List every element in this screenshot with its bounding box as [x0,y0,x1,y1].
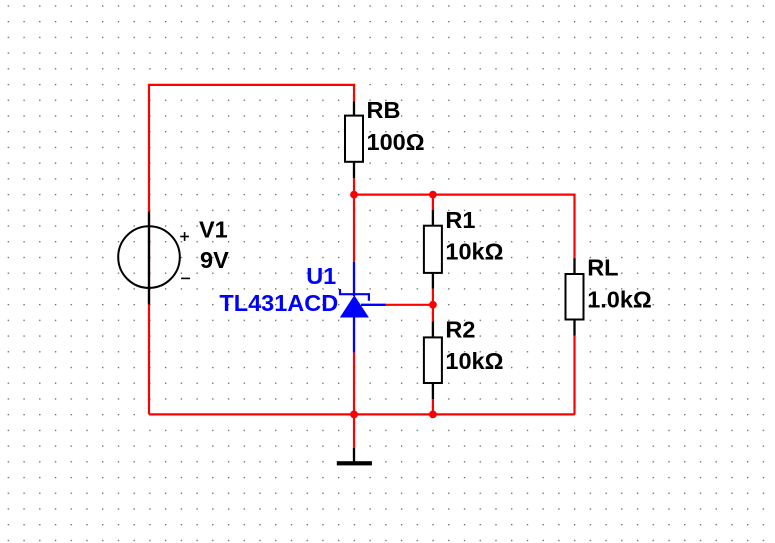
ground [337,448,372,466]
junction node R2 bottom [429,411,437,419]
wire TL431 anode to bottom rail [353,352,355,414]
svg-text:100Ω: 100Ω [367,129,425,155]
wire TL431 ref to divider node [386,304,433,306]
resistor RB [345,102,363,179]
wire R1 bottom to node [432,288,434,305]
svg-text:V1: V1 [199,216,228,242]
wire R1 top lead connection [432,195,434,210]
svg-text:TL431ACD: TL431ACD [219,290,338,316]
junction node R1 top [429,191,437,199]
svg-text:RL: RL [587,255,618,281]
wire RL bottom [573,336,575,415]
wire TL431 cathode from node [353,195,355,262]
junction node ground [350,411,358,419]
svg-text:R1: R1 [445,207,475,233]
junction node divider mid [429,301,437,309]
resistor R1 [424,210,442,289]
resistor R2 [424,321,442,399]
wire top rail from V1 to RB [149,85,354,415]
voltage source V1 symbol [118,212,190,305]
svg-text:R2: R2 [445,317,475,343]
svg-text:10kΩ: 10kΩ [445,348,503,374]
wire R2 top [432,305,434,322]
wire ground drop [353,414,355,448]
wire bottom rail [149,413,575,415]
shunt regulator U1 TL431 symbol [340,262,386,353]
svg-text:9V: 9V [200,247,229,273]
wire middle rail RB node to RL [354,178,575,258]
svg-text:10kΩ: 10kΩ [445,238,503,264]
svg-text:U1: U1 [306,263,336,289]
junction node RB/mid rail [350,191,358,199]
wire R2 bottom [432,399,434,414]
svg-text:1.0kΩ: 1.0kΩ [587,286,652,312]
resistor RL [566,258,584,335]
svg-text:RB: RB [367,97,401,123]
